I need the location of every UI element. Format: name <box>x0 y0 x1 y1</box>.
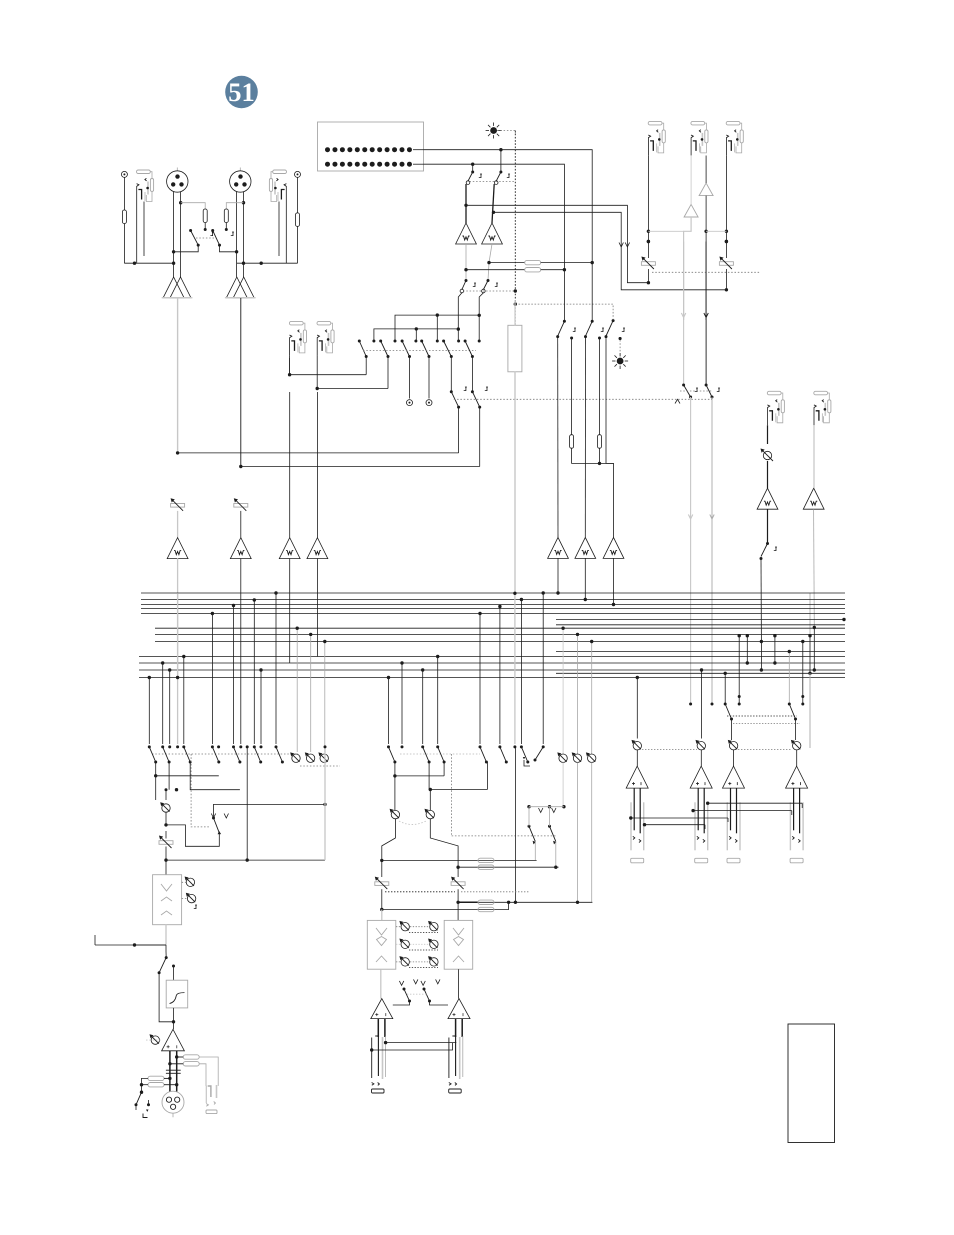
junction <box>288 373 291 376</box>
junction <box>700 668 703 671</box>
wire <box>165 952 167 958</box>
post-bus vertical to return bus <box>514 747 516 902</box>
junction <box>590 640 593 643</box>
wire <box>458 969 460 998</box>
power amp 1 <box>626 766 648 788</box>
gang dotted pots 3-4 <box>738 748 792 750</box>
junction <box>738 634 741 637</box>
wire <box>486 762 488 790</box>
junction <box>161 661 164 664</box>
junction <box>842 618 845 621</box>
resistor R-pad CH2 <box>224 209 228 223</box>
wire <box>170 1063 183 1065</box>
junction <box>647 281 650 284</box>
insert bus R <box>458 866 558 868</box>
junction <box>554 866 557 869</box>
tape out phono 2 <box>426 400 432 406</box>
bus drop <box>253 600 255 744</box>
junction <box>400 661 403 664</box>
bus drop <box>738 636 740 697</box>
junction <box>393 774 396 777</box>
junction <box>598 462 601 465</box>
wire <box>627 247 648 283</box>
main output amp R <box>448 999 470 1019</box>
bus drop <box>499 607 501 745</box>
aux return jack <box>691 121 708 155</box>
bus drop <box>233 606 235 745</box>
post select pivot L <box>556 335 559 338</box>
aux send level trim 1 <box>641 257 655 270</box>
gang dotted routing <box>363 350 476 352</box>
ground lift switch <box>140 1091 143 1094</box>
wire <box>182 881 186 883</box>
wire insert jack CH3 down <box>289 358 291 375</box>
bus drop <box>479 614 481 745</box>
switch arrows <box>539 808 543 813</box>
bus drop gray <box>788 652 790 705</box>
bus drop <box>401 663 403 744</box>
junction <box>164 858 167 861</box>
mono switch <box>212 817 215 820</box>
junction <box>629 816 632 819</box>
junction <box>725 240 728 243</box>
legend box <box>788 1024 835 1143</box>
switch blade <box>212 747 218 762</box>
resistor oval R <box>478 865 494 869</box>
junction <box>172 262 175 265</box>
wire <box>795 719 797 740</box>
wire cold CH2 <box>243 192 245 203</box>
junction <box>773 634 776 637</box>
PFL/AFL switch R <box>487 279 490 282</box>
wire <box>725 269 727 290</box>
wire <box>156 762 219 776</box>
wire aux return out <box>684 217 692 320</box>
junction <box>182 655 185 658</box>
monitor amp L output <box>465 244 467 281</box>
wire cold lower CH2 <box>243 203 245 277</box>
master select contact <box>738 695 741 698</box>
power amp 3 <box>723 766 745 788</box>
speaker jack 2 <box>695 788 708 863</box>
meter select switch R <box>500 150 502 172</box>
PFL dotted to fader <box>514 304 516 325</box>
limiter pots row 1 <box>399 921 409 931</box>
mode switch arrows <box>399 981 403 986</box>
resistor oval return R <box>478 900 494 904</box>
junction <box>168 1062 171 1065</box>
junction <box>246 858 249 861</box>
wire <box>240 511 242 538</box>
wire <box>123 224 125 264</box>
channel amp CH1 <box>167 538 188 559</box>
switch contact row left <box>148 745 151 748</box>
PFL vertical R <box>479 293 483 341</box>
junction <box>387 676 390 679</box>
junction <box>140 1091 143 1094</box>
junction <box>746 661 749 664</box>
line in jack R <box>814 391 831 425</box>
wire amp CH3 to bus <box>289 558 291 663</box>
XLR input CH2 <box>230 168 251 193</box>
junction <box>175 1083 178 1086</box>
bus drop <box>240 670 242 744</box>
wire rail2 drop <box>415 329 417 341</box>
gang dotted master trims <box>385 891 455 893</box>
solo pivot <box>605 335 608 338</box>
junction <box>148 676 151 679</box>
flow arrow <box>625 243 629 248</box>
main out R hot <box>455 1019 457 1037</box>
wire <box>534 841 536 860</box>
wire <box>767 461 769 488</box>
resistor to jack 2 <box>183 1062 199 1066</box>
monitor wire R to aux <box>494 212 621 247</box>
bus drop <box>260 670 262 744</box>
wire <box>165 831 167 839</box>
monitor level pot 1 <box>290 752 300 762</box>
bus drop <box>162 663 164 744</box>
wire riser <box>246 747 248 860</box>
flow arrow <box>619 243 623 248</box>
monitor level pot 2 <box>305 752 315 762</box>
switch blade <box>184 747 190 762</box>
junction <box>175 788 178 791</box>
limiter block L <box>367 920 396 969</box>
wire <box>572 448 600 463</box>
dotted link to aux switches <box>452 835 556 837</box>
line mute switch <box>766 542 769 545</box>
wire <box>164 1077 170 1079</box>
bus riser <box>760 642 762 671</box>
junction <box>154 774 157 777</box>
junction <box>514 901 517 904</box>
junction <box>492 211 495 214</box>
junction <box>309 633 312 636</box>
resistor bus feed 1 <box>570 435 574 449</box>
wire <box>471 357 473 392</box>
junction <box>133 262 136 265</box>
master trim L <box>375 877 389 890</box>
line amp R <box>803 488 824 509</box>
mic preamp CH1 <box>162 277 193 298</box>
aux select switch 1 <box>528 825 531 828</box>
junction <box>380 908 383 911</box>
limiter pot 2 <box>186 893 196 903</box>
junction <box>773 661 776 664</box>
master pot R <box>425 809 435 819</box>
junction <box>370 1048 373 1051</box>
junction <box>179 201 182 204</box>
junction <box>464 204 467 207</box>
junction <box>471 163 474 166</box>
wire <box>381 860 383 877</box>
dotted <box>396 961 401 963</box>
power amp 4 <box>786 766 808 788</box>
mode switch L <box>403 988 406 991</box>
switch actuator mark <box>194 906 196 909</box>
junction <box>323 640 326 643</box>
wire <box>457 867 459 877</box>
junction <box>562 805 565 808</box>
junction <box>813 668 816 671</box>
mute gang dotted rail <box>454 398 712 400</box>
XLR input CH1 <box>167 168 188 193</box>
switch blade <box>423 747 429 762</box>
switch blade <box>480 747 486 762</box>
pad switch CH1 <box>189 229 192 232</box>
wire <box>809 593 811 636</box>
wire <box>142 1078 149 1084</box>
routing switch P4 <box>420 340 423 343</box>
switch blade <box>438 747 444 762</box>
aux jack 1 sleeve down <box>647 156 649 259</box>
wire <box>381 910 383 921</box>
dotted link <box>191 754 209 827</box>
page number badge 51 <box>225 76 258 109</box>
switch blade <box>500 747 506 762</box>
tape out phono 1 <box>407 400 413 406</box>
master select switch A <box>724 703 727 706</box>
switch actuator mark <box>231 233 233 236</box>
monitor amp R <box>482 223 503 244</box>
bus drop <box>437 657 439 745</box>
wire <box>297 177 299 213</box>
wire riser gray <box>324 747 326 860</box>
bus summing amp 2 <box>575 537 596 558</box>
mono trim <box>159 836 173 849</box>
junction <box>176 451 179 454</box>
junction <box>725 230 728 233</box>
main out L cold <box>384 1019 386 1037</box>
wire <box>599 338 601 435</box>
post select contact L <box>563 320 566 323</box>
mono out cold <box>176 1051 178 1092</box>
wire <box>394 762 396 776</box>
junction <box>647 240 650 243</box>
junction <box>563 268 566 271</box>
post select pivot C <box>584 335 587 338</box>
wire mono sum down <box>165 790 167 800</box>
pad switch CH2 <box>211 229 214 232</box>
junction <box>239 465 242 468</box>
channel trim CH2 <box>234 498 248 511</box>
junction <box>380 859 383 862</box>
wire lamp to PFL rail <box>497 131 515 135</box>
aux master pot 2 <box>572 752 582 762</box>
monitor amp R output <box>488 244 492 281</box>
junction <box>576 633 579 636</box>
switch blade <box>389 747 395 762</box>
junction <box>498 605 501 608</box>
junction <box>242 201 245 204</box>
wire <box>457 889 459 902</box>
aux master wiring down <box>562 762 564 806</box>
wire takeoff <box>166 825 219 846</box>
junction <box>140 1083 143 1086</box>
junction <box>576 901 579 904</box>
mute lamp <box>612 353 628 369</box>
channel fader <box>508 325 522 372</box>
wire <box>165 813 167 825</box>
mono out hot <box>169 1051 171 1092</box>
mode switch R <box>423 988 426 991</box>
wire <box>297 226 299 263</box>
dotted <box>146 1039 162 1041</box>
wire line R <box>813 425 815 488</box>
junction <box>704 230 707 233</box>
wire solo pivot down <box>606 337 614 464</box>
preamp CH2 output <box>240 298 242 467</box>
aux send level trim 2 <box>719 257 733 270</box>
wire insert CH1 to switches <box>290 374 367 376</box>
wire <box>382 819 396 860</box>
input bus CH1 <box>124 262 173 264</box>
switch actuator mark <box>573 329 575 332</box>
bus drop <box>275 593 277 744</box>
svg-text:51: 51 <box>228 77 255 107</box>
wire <box>733 750 735 766</box>
junction <box>691 809 694 812</box>
wire <box>190 762 240 790</box>
hook mark <box>524 760 530 766</box>
routing feed rail 1 <box>395 315 479 340</box>
gang link aux trims <box>652 271 760 273</box>
low cut filter block <box>166 980 188 1008</box>
gang dotted master pots <box>399 821 426 825</box>
bus drop <box>183 657 185 745</box>
bus drop to monitor pots <box>296 628 298 752</box>
bus drop gray <box>177 593 179 744</box>
aux mute switch R <box>705 384 708 387</box>
mono limiter block <box>153 875 182 925</box>
wire monitor L <box>465 184 467 223</box>
main out L hot <box>377 1019 379 1037</box>
junction <box>384 1041 387 1044</box>
wire <box>220 245 237 252</box>
monitor select switch CH1 <box>450 390 453 393</box>
aux master pot 3 <box>586 752 596 762</box>
bus drop <box>542 593 544 744</box>
bus riser <box>774 636 776 663</box>
junction <box>801 640 804 643</box>
resistor pad CH2 <box>296 213 300 227</box>
bus drop to master pot 2 <box>701 670 703 739</box>
junction <box>429 788 432 791</box>
limiter pots row 3 <box>399 956 409 966</box>
wire pivot P1 to insert CH1 <box>365 357 367 375</box>
junction <box>133 943 136 946</box>
junction <box>643 823 646 826</box>
wire <box>174 245 199 252</box>
junction <box>514 302 517 305</box>
junction <box>478 612 481 615</box>
wire <box>204 223 206 230</box>
switch blade <box>149 747 155 762</box>
wire hot CH1 <box>173 192 175 277</box>
resistor oval L <box>478 858 494 862</box>
aux send jack 2 <box>726 121 743 155</box>
junction <box>323 803 326 806</box>
PFL lamp <box>486 123 502 139</box>
sub bus group C <box>139 656 845 658</box>
routing switch P5 <box>442 340 445 343</box>
output level pot 2 <box>696 740 706 750</box>
wire insert CH2 to switches <box>317 388 388 390</box>
junction <box>647 240 650 243</box>
wire <box>199 1064 206 1086</box>
switch blade <box>234 747 240 762</box>
gang dotted rail mid bank <box>400 753 480 755</box>
wire <box>429 790 431 811</box>
wire amp CH1 to bus <box>177 558 179 680</box>
junction <box>464 268 467 271</box>
limiter pot 1 <box>185 877 195 887</box>
wire <box>809 673 811 748</box>
wire <box>555 841 557 867</box>
PFL vertical L <box>458 293 462 341</box>
channel amp CH3 <box>279 538 300 559</box>
aux return amp <box>684 204 698 217</box>
bus drop to aux masters <box>562 628 564 754</box>
monitor level pot 3 <box>318 752 328 762</box>
switch blade <box>276 747 282 762</box>
junction <box>478 314 481 317</box>
junction <box>415 327 418 330</box>
junction <box>746 634 749 637</box>
dotted <box>396 943 401 945</box>
monitor wire L to aux <box>466 205 627 247</box>
mic preamp CH2 <box>225 277 256 298</box>
junction <box>172 1020 175 1023</box>
solo bus (right half) <box>556 619 845 621</box>
junction <box>176 676 179 679</box>
switch actuator mark <box>622 329 624 332</box>
junction <box>296 627 299 630</box>
junction <box>242 262 245 265</box>
wire <box>142 1084 149 1086</box>
junction <box>499 148 502 151</box>
wire amp CH4 to bus <box>316 558 318 656</box>
master select contact <box>801 695 804 698</box>
junction <box>253 598 256 601</box>
junction <box>211 612 214 615</box>
junction <box>584 598 587 601</box>
wire to tape phono 2 <box>428 357 430 399</box>
routing switch P3 <box>401 340 404 343</box>
main out R cold <box>461 1019 463 1037</box>
main out jack R <box>449 1036 463 1093</box>
solo contact <box>612 319 615 322</box>
wire <box>393 1001 410 1005</box>
bus drop <box>211 614 213 745</box>
monitor amp L <box>456 223 477 244</box>
alt contact marks <box>570 337 573 340</box>
junction <box>436 313 439 316</box>
junction <box>513 592 516 595</box>
junction <box>548 805 551 808</box>
mono out jack <box>206 1085 217 1114</box>
line in jack L <box>767 391 784 425</box>
wire insert CH2 send <box>316 355 318 388</box>
wire CH4 into amp <box>316 392 318 538</box>
aux mute switch L <box>682 384 685 387</box>
output level pot 3 <box>728 740 738 750</box>
post select contact C <box>591 320 594 323</box>
fader wiper line <box>514 372 516 594</box>
routing switch P6 <box>464 340 467 343</box>
junction <box>520 598 523 601</box>
